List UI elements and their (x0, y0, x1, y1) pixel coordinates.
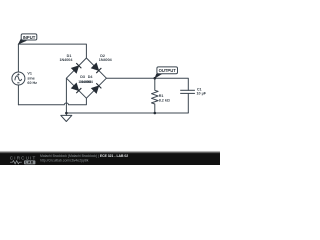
wire ground drop from bridge left corner (65, 78, 67, 115)
svg-text:R1: R1 (159, 94, 164, 98)
C1 labels (197, 87, 207, 95)
svg-text:http://circuitlab.com/c6v4e2jq: http://circuitlab.com/c6v4e2jqr8k (40, 158, 89, 162)
svg-text:V1: V1 (27, 72, 32, 76)
svg-text:sine: sine (27, 76, 34, 80)
capacitor C1 (180, 90, 195, 113)
svg-text:Malachi Braddock (Malachi Brad: Malachi Braddock (Malachi Braddock) | EC… (40, 154, 128, 158)
junction dot at R1 top / OUTPUT (154, 77, 157, 80)
wire bottom AC return with hop over ground drop (18, 98, 86, 105)
svg-text:LAB: LAB (25, 161, 33, 165)
V1 labels (27, 72, 37, 86)
svg-text:1N4004: 1N4004 (59, 58, 73, 62)
R1 labels (159, 94, 170, 103)
wire top rail from INPUT to bridge top (18, 44, 86, 58)
node INPUT flag (18, 34, 36, 44)
svg-text:60 Hz: 60 Hz (27, 81, 37, 85)
svg-text:8.2 kΩ: 8.2 kΩ (159, 99, 170, 103)
svg-text:1N4004: 1N4004 (80, 80, 94, 84)
diode D4 (91, 83, 101, 93)
wire output rail to C1 (106, 78, 188, 90)
wire ground rail (66, 112, 188, 114)
D1 labels (59, 54, 73, 62)
junction dot at ground rail left (65, 112, 68, 115)
svg-text:1N4004: 1N4004 (99, 58, 113, 62)
wire V1 bottom lead (17, 85, 19, 105)
voltage source V1 (12, 72, 25, 85)
svg-text:10 µF: 10 µF (197, 92, 207, 96)
junction dot at R1 bottom (154, 112, 157, 115)
D2 labels (99, 54, 113, 62)
D3 D4 labels (78, 75, 93, 84)
CircuitLab logo (10, 156, 37, 165)
diode D1 (71, 63, 81, 73)
resistor R1 (152, 78, 159, 113)
ground (61, 115, 72, 121)
wire bridge diamond (66, 58, 106, 98)
svg-text:OUTPUT: OUTPUT (159, 68, 177, 73)
node OUTPUT flag (155, 67, 178, 78)
diode D3 (71, 83, 81, 93)
svg-text:D3: D3 (80, 75, 85, 79)
svg-text:INPUT: INPUT (23, 35, 36, 40)
wire left vertical INPUT to V1 top (17, 44, 19, 72)
diode D2 (91, 63, 101, 73)
